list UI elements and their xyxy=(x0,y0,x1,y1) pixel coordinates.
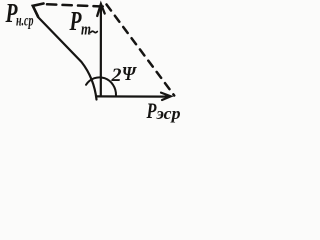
wire P_n.sr arrowhead xyxy=(33,4,44,17)
svg-text:Ψ: Ψ xyxy=(122,63,138,85)
svg-text:P: P xyxy=(146,98,157,123)
label P_n.sr xyxy=(5,0,34,30)
svg-text:P: P xyxy=(69,6,82,36)
wire dashed diagonal xyxy=(107,5,175,96)
arc angle 2psi xyxy=(86,77,116,95)
wire top dashed line xyxy=(47,4,104,6)
label P_esr xyxy=(146,98,181,123)
svg-text:н.ср: н.ср xyxy=(16,13,34,30)
svg-text:эср: эср xyxy=(155,104,180,123)
wire P_esr arrowhead xyxy=(161,93,171,100)
wire P_m vector line xyxy=(100,5,102,96)
svg-text:m: m xyxy=(81,20,91,39)
svg-text:2: 2 xyxy=(110,65,122,86)
tilde of P_m~ xyxy=(91,31,98,32)
label P_m~ xyxy=(69,6,98,39)
wire P_m arrowhead xyxy=(97,4,105,16)
wire P_n.sr vector line xyxy=(33,6,97,100)
wire P_esr vector line xyxy=(97,95,167,97)
